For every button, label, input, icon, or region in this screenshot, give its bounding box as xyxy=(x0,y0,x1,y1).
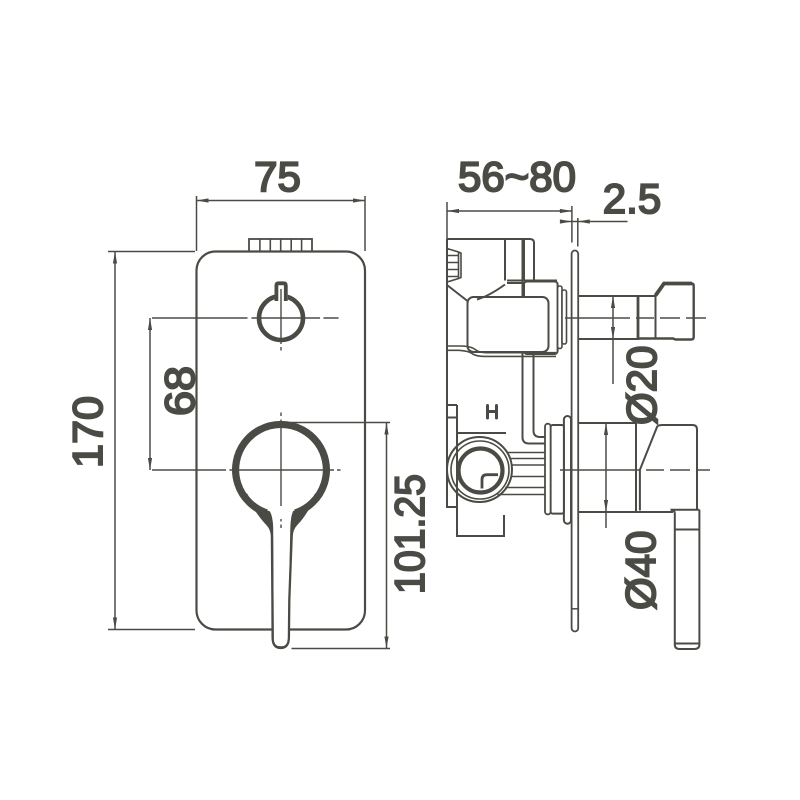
lever paddle xyxy=(671,509,700,511)
svg-text:Ø40: Ø40 xyxy=(617,531,664,610)
dim 68 xyxy=(149,318,151,470)
knob shaft centerline xyxy=(565,317,706,319)
column xyxy=(505,239,524,281)
svg-text:101.25: 101.25 xyxy=(386,474,433,594)
svg-text:2.5: 2.5 xyxy=(603,175,661,222)
side dimension arrowheads xyxy=(447,209,615,512)
ribbed fitting xyxy=(447,249,461,283)
boss edges xyxy=(457,432,507,434)
inlet port circles xyxy=(447,437,512,502)
svg-text:Ø20: Ø20 xyxy=(618,346,665,425)
diverter knob circle xyxy=(259,281,303,340)
dim 101.25 xyxy=(284,423,390,649)
lower flanges xyxy=(564,416,571,524)
upper gasket rings xyxy=(558,286,562,349)
dim 2.5 xyxy=(560,221,628,223)
dim 20 xyxy=(612,296,614,384)
handle base side xyxy=(578,423,673,512)
svg-text:170: 170 xyxy=(64,396,111,468)
pipe lines xyxy=(497,453,545,495)
cartridge bulge nut xyxy=(447,285,468,301)
lever interior punch xyxy=(265,502,298,647)
dim 40 xyxy=(605,423,607,528)
dim 56~80 xyxy=(447,202,578,247)
DIMENSIONS side xyxy=(447,202,628,528)
wall plate side xyxy=(572,251,579,632)
H mark xyxy=(488,406,497,419)
wall plate front xyxy=(197,252,366,630)
svg-text:56~80: 56~80 xyxy=(458,153,576,200)
dim 170 xyxy=(108,252,195,630)
knob side xyxy=(578,296,655,339)
handle centerline xyxy=(560,469,710,471)
serrated tab on plate top xyxy=(249,239,312,252)
diverter centerlines xyxy=(152,289,339,351)
lever funnel fill xyxy=(246,494,316,648)
SIDE VIEW xyxy=(447,239,710,649)
handle centerlines xyxy=(152,413,341,529)
lever outline xyxy=(246,494,316,648)
svg-text:75: 75 xyxy=(254,153,301,200)
handle ring xyxy=(236,424,327,512)
svg-text:68: 68 xyxy=(156,366,203,416)
lever head xyxy=(640,426,658,511)
side dimension texts xyxy=(458,153,665,610)
front dimension texts xyxy=(64,153,433,594)
dim 75 xyxy=(197,196,366,251)
DIMENSIONS front xyxy=(108,196,390,649)
cartridge bulge rear xyxy=(524,282,558,355)
valve body xyxy=(447,239,534,280)
front dimension arrowheads xyxy=(113,198,389,648)
